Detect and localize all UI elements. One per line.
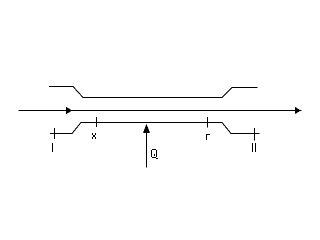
label x <box>92 133 96 139</box>
arrowhead Q <box>143 124 150 133</box>
label I <box>52 143 54 152</box>
flow arrowhead mid <box>66 107 72 114</box>
tick at x <box>96 117 98 127</box>
flow axis line <box>19 110 302 112</box>
flow arrowhead right <box>295 107 301 114</box>
tick at г <box>207 117 209 128</box>
upper bank profile <box>49 87 258 98</box>
section tick II <box>254 128 256 141</box>
label г <box>206 134 210 140</box>
label II <box>253 143 256 152</box>
arrow Q shaft <box>146 130 148 168</box>
lower bank profile <box>50 123 260 134</box>
label Q <box>151 149 158 159</box>
section tick I <box>54 128 56 139</box>
